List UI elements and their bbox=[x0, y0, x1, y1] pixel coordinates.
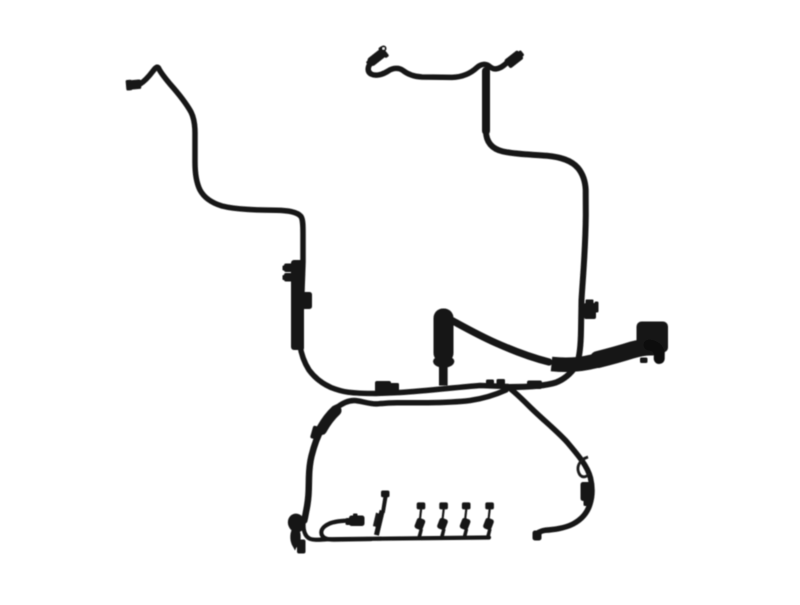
clip 1 on tube A horizontal bbox=[375, 381, 399, 393]
injector riser 3 bbox=[459, 502, 471, 537]
clip 2 on tube A horizontal bbox=[486, 379, 505, 388]
connector block on tube C bbox=[581, 482, 594, 506]
clip on tube D bbox=[310, 425, 323, 440]
tab under elbow bbox=[640, 358, 648, 364]
tube C: from junction down-right to bottom loop end cap bbox=[508, 387, 592, 533]
cylinder body bbox=[434, 309, 454, 363]
bracket with bolts on tube A left side bbox=[283, 260, 313, 350]
handlebar left connector with eyelet bbox=[364, 46, 389, 70]
cylinder stem bbox=[439, 360, 448, 386]
sleeve on tube D bbox=[322, 411, 337, 430]
cylinder bottom flare bbox=[433, 355, 454, 367]
tube D: from junction left, dip, down-left to bottom clamp and fuel rail bbox=[304, 390, 506, 540]
quick-connect fitting bbox=[346, 514, 365, 527]
wire loop on tube C bbox=[578, 457, 590, 477]
nub at peak of tube A bbox=[155, 65, 159, 69]
injector riser 2 bbox=[436, 502, 448, 537]
injector stub leftmost on rail bbox=[373, 491, 390, 536]
quick-connect branch on fuel rail bbox=[321, 521, 371, 540]
handlebar right connector bbox=[504, 48, 526, 68]
clip 3 near junction bbox=[527, 381, 542, 390]
injector riser 4 bbox=[482, 502, 494, 537]
thick hose right section bbox=[598, 347, 652, 360]
flange plate connector bbox=[637, 322, 669, 353]
end cap of tube C bbox=[533, 531, 542, 541]
clamp at bottom left of tube D bbox=[285, 511, 308, 553]
clip on tube B right vertical bbox=[584, 300, 599, 320]
diagonal from cylinder top bbox=[452, 321, 549, 363]
tube A: top-left line from connector down left side to junction bbox=[140, 67, 508, 393]
tube B: handlebar at top with stem down right side to junction bbox=[368, 59, 586, 388]
thick hose bbox=[552, 347, 653, 365]
injector riser 1 bbox=[414, 502, 426, 537]
connector at start of tube A bbox=[126, 79, 142, 90]
